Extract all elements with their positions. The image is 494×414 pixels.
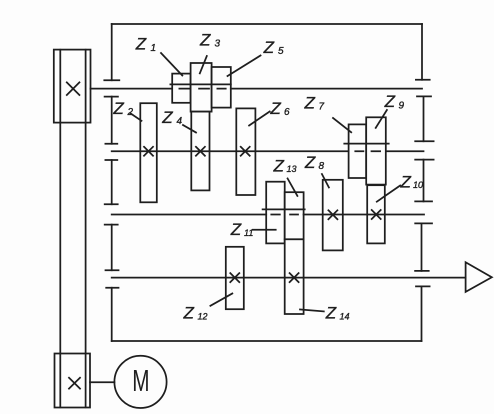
svg-text:9: 9 [399, 101, 405, 112]
shaft III solid segments [112, 214, 424, 216]
belt right line [85, 50, 87, 408]
leader line Z13 [288, 179, 298, 196]
pulley P2 (bottom, on motor shaft) [55, 354, 91, 408]
bearing ticks shaft IV right [415, 271, 430, 287]
bearing ticks shaft III right [415, 201, 432, 223]
motor shaft link [90, 381, 114, 383]
X mark gear Z4 [196, 147, 205, 156]
svg-text:2: 2 [127, 107, 134, 118]
bearing ticks shaft III left [105, 204, 118, 224]
svg-text:Z: Z [135, 35, 147, 54]
leader line Z6 [249, 112, 270, 126]
bearing ticks shaft IV left [106, 270, 119, 287]
X mark pulley P1 [67, 82, 80, 95]
svg-text:Z: Z [384, 92, 396, 111]
svg-text:14: 14 [340, 311, 350, 321]
svg-text:1: 1 [151, 43, 157, 54]
svg-text:7: 7 [319, 102, 325, 113]
gear Z10 (fixed on shaft III) [367, 185, 385, 243]
X mark gear Z2 [144, 147, 153, 156]
leader line Z2 [131, 114, 142, 121]
gear Z1 (sliding cluster I) [172, 74, 190, 103]
leader line Z3 [200, 56, 207, 73]
svg-text:Z: Z [263, 38, 275, 57]
X mark gear Z8 [328, 210, 337, 219]
svg-text:3: 3 [215, 39, 221, 50]
leader line Z11 [253, 229, 276, 231]
leader line Z14 [300, 309, 324, 311]
shaft II dashed inside cluster II [355, 150, 380, 152]
svg-text:Z: Z [273, 156, 285, 175]
belt left line [59, 50, 61, 408]
X mark gear Z12 [230, 273, 239, 282]
leader line Z5 [228, 56, 261, 77]
gear Z4 (fixed on shaft II) [191, 112, 209, 191]
gear Z13 (sliding cluster III) [285, 192, 304, 239]
gear Z8 (fixed on shaft III) [323, 180, 343, 251]
shaft III dashed inside cluster III [271, 214, 298, 216]
svg-text:Z: Z [199, 30, 211, 49]
svg-text:12: 12 [198, 311, 208, 321]
svg-text:Z: Z [400, 172, 412, 191]
leader line Z4 [183, 125, 196, 133]
output arrow [466, 262, 492, 292]
svg-text:Z: Z [304, 93, 316, 112]
housing top wall [112, 23, 422, 25]
leader line Z1 [161, 53, 182, 76]
shaft I dashed inside cluster I [179, 88, 225, 90]
svg-text:Z: Z [304, 153, 316, 172]
svg-text:11: 11 [244, 228, 253, 238]
gear Z11 (sliding cluster III) [266, 182, 285, 244]
svg-text:6: 6 [284, 107, 290, 118]
housing bottom wall [112, 340, 422, 342]
svg-text:Z: Z [161, 108, 173, 127]
X mark gear Z6 [241, 147, 250, 156]
shaft IV solid line [112, 277, 466, 279]
leader line Z10 [377, 186, 400, 202]
svg-text:Z: Z [269, 99, 281, 118]
gear Z7 (sliding cluster II) [349, 124, 367, 178]
leader line Z9 [376, 110, 387, 128]
svg-text:4: 4 [177, 116, 183, 127]
shaft I solid segments [91, 88, 423, 90]
gear Z12 (fixed on shaft IV) [226, 247, 244, 309]
svg-text:M: M [132, 363, 149, 398]
X mark pulley P2 [69, 378, 80, 389]
svg-text:Z: Z [183, 303, 195, 322]
gear Z9 (sliding cluster II) [366, 117, 386, 184]
bearing ticks shaft I left [104, 80, 119, 96]
svg-text:8: 8 [319, 161, 325, 172]
gear Z6 (fixed on shaft II) [236, 108, 255, 195]
bearing ticks shaft II right [415, 141, 433, 159]
svg-text:Z: Z [112, 99, 124, 118]
svg-text:10: 10 [413, 180, 423, 190]
leader line Z12 [210, 294, 232, 306]
cluster III hub bar [263, 208, 305, 210]
bearing ticks shaft I right [416, 80, 431, 97]
housing left wall segments [111, 24, 113, 341]
leader line Z7 [333, 118, 351, 132]
pulley P1 (top, on shaft I) [54, 50, 91, 123]
gear Z2 (fixed on shaft II) [140, 103, 157, 202]
cluster I hub bar [170, 83, 230, 85]
bearing ticks shaft II left [105, 144, 117, 160]
svg-text:Z: Z [325, 303, 337, 322]
svg-text:Z: Z [230, 220, 242, 239]
motor M circle [114, 356, 166, 408]
shaft II solid segments [112, 150, 424, 152]
svg-text:13: 13 [287, 164, 297, 174]
gear Z3 (sliding cluster I) [191, 63, 212, 112]
cluster II hub bar [344, 143, 388, 145]
X mark gear Z14 [290, 273, 299, 282]
X mark gear Z10 [372, 210, 381, 219]
svg-text:5: 5 [278, 46, 284, 57]
housing right wall segments [422, 24, 424, 341]
gear Z5 (sliding cluster I) [212, 67, 231, 108]
gear Z14 (fixed on shaft IV) [285, 239, 304, 314]
leader line Z8 [322, 174, 329, 188]
